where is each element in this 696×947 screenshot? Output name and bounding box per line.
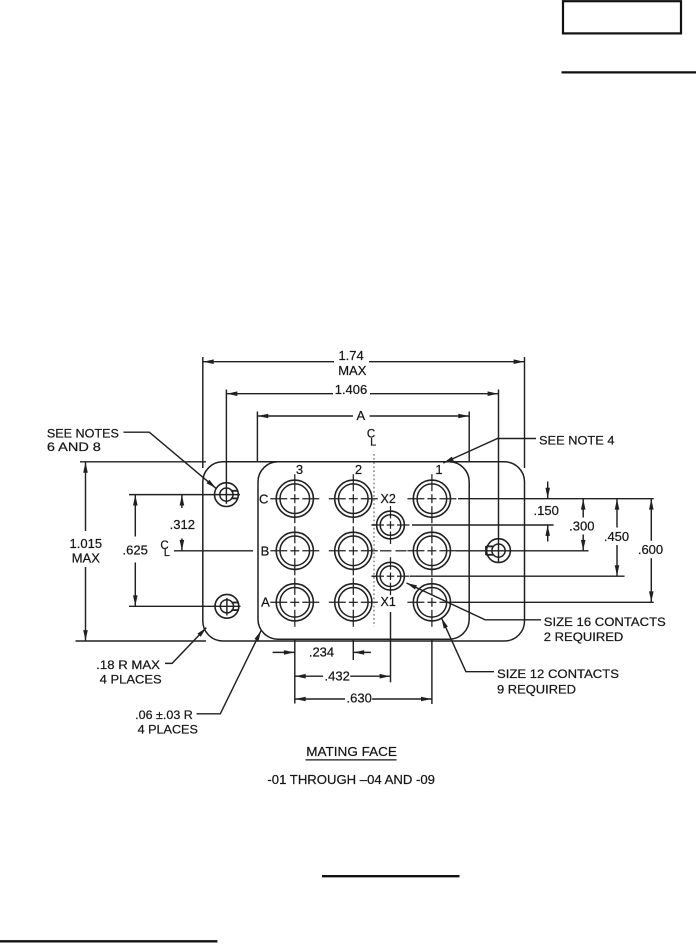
- svg-text:4 PLACES: 4 PLACES: [100, 673, 162, 687]
- svg-text:A: A: [356, 408, 365, 423]
- svg-text:MATING FACE: MATING FACE: [306, 744, 397, 759]
- svg-text:6 AND 8: 6 AND 8: [47, 440, 101, 454]
- svg-text:SEE NOTES: SEE NOTES: [47, 426, 119, 440]
- svg-text:.432: .432: [325, 668, 350, 683]
- svg-text:2: 2: [355, 462, 362, 477]
- svg-text:X1: X1: [381, 595, 396, 609]
- svg-text:-01 THROUGH –04 AND -09: -01 THROUGH –04 AND -09: [267, 772, 435, 787]
- svg-text:.06 ±.03 R: .06 ±.03 R: [135, 708, 193, 722]
- svg-text:3: 3: [296, 462, 303, 477]
- svg-text:9 REQUIRED: 9 REQUIRED: [497, 683, 576, 697]
- svg-text:B: B: [261, 543, 270, 558]
- svg-text:2 REQUIRED: 2 REQUIRED: [544, 630, 624, 644]
- svg-text:4 PLACES: 4 PLACES: [138, 723, 198, 737]
- svg-text:1.015: 1.015: [70, 536, 103, 551]
- svg-text:X2: X2: [381, 492, 396, 506]
- svg-text:SEE NOTE 4: SEE NOTE 4: [539, 433, 615, 447]
- svg-text:1.406: 1.406: [335, 382, 368, 397]
- svg-text:MAX: MAX: [72, 550, 101, 565]
- svg-text:.600: .600: [638, 542, 663, 557]
- svg-text:.234: .234: [309, 644, 334, 659]
- svg-text:.150: .150: [534, 503, 559, 518]
- svg-text:SIZE 12 CONTACTS: SIZE 12 CONTACTS: [497, 667, 619, 681]
- svg-text:.630: .630: [347, 691, 372, 706]
- svg-text:.300: .300: [569, 518, 594, 533]
- svg-text:.312: .312: [170, 517, 195, 532]
- svg-text:.625: .625: [123, 543, 148, 558]
- svg-text:L: L: [164, 547, 170, 559]
- svg-text:C: C: [259, 491, 268, 506]
- svg-text:.450: .450: [604, 529, 629, 544]
- svg-text:1: 1: [435, 462, 442, 477]
- svg-text:1.74: 1.74: [338, 348, 363, 363]
- svg-text:.18 R MAX: .18 R MAX: [96, 658, 160, 672]
- svg-text:MAX: MAX: [338, 363, 367, 378]
- svg-text:L: L: [370, 436, 376, 448]
- svg-text:SIZE 16 CONTACTS: SIZE 16 CONTACTS: [544, 615, 666, 629]
- svg-text:A: A: [261, 595, 270, 610]
